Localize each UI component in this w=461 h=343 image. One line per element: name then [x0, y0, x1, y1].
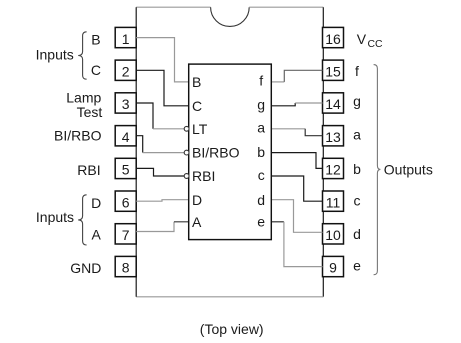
wire pin1 to B	[136, 38, 189, 82]
inversion bubble RBI	[184, 174, 189, 179]
pin 2 box	[115, 60, 136, 80]
svg-text:6: 6	[122, 194, 130, 210]
brace for Inputs D,A	[78, 195, 86, 245]
svg-text:c: c	[258, 167, 265, 183]
wire b to pin12	[271, 153, 322, 169]
pin 9 box	[323, 256, 344, 276]
svg-text:d: d	[257, 192, 265, 208]
svg-text:Inputs: Inputs	[36, 209, 74, 225]
svg-text:RBI: RBI	[77, 162, 100, 178]
wire a to pin13	[271, 129, 322, 136]
svg-text:B: B	[91, 32, 100, 48]
svg-text:D: D	[192, 192, 202, 208]
pin 5 box	[115, 158, 136, 178]
svg-text:CC: CC	[368, 39, 384, 50]
pin 10 box	[323, 224, 344, 244]
svg-text:Inputs: Inputs	[36, 47, 74, 63]
pin 4 box	[115, 126, 136, 146]
label VCC	[357, 31, 383, 50]
wire f to pin15	[271, 70, 322, 82]
svg-text:e: e	[353, 257, 361, 273]
svg-text:7: 7	[122, 227, 130, 243]
pin 1 box	[115, 27, 136, 47]
svg-text:b: b	[353, 161, 361, 177]
svg-text:BI/RBO: BI/RBO	[54, 127, 102, 143]
svg-text:(Top view): (Top view)	[200, 321, 264, 337]
wire pin3 to LT	[136, 103, 184, 129]
svg-text:C: C	[192, 98, 202, 114]
svg-text:5: 5	[122, 162, 130, 178]
svg-text:c: c	[354, 192, 361, 208]
svg-text:b: b	[257, 144, 265, 160]
pin 15 box	[323, 60, 344, 80]
IC body rectangle	[189, 64, 272, 240]
wire pin5 to RBI	[136, 168, 184, 176]
pin 6 box	[115, 191, 136, 211]
wire pin6 to D	[136, 200, 189, 202]
svg-text:BI/RBO: BI/RBO	[192, 145, 240, 161]
svg-text:Outputs: Outputs	[384, 161, 433, 177]
svg-text:15: 15	[325, 64, 341, 80]
pin 12 box	[323, 158, 344, 178]
pin 14 box	[323, 93, 344, 113]
svg-text:A: A	[192, 214, 202, 230]
svg-text:D: D	[91, 195, 101, 211]
wire pin7 to A	[136, 222, 189, 232]
svg-text:C: C	[91, 62, 101, 78]
brace for Outputs	[374, 65, 381, 275]
wire pin2 to C	[136, 70, 189, 106]
svg-text:9: 9	[329, 260, 337, 276]
svg-text:Test: Test	[77, 104, 103, 120]
wire d to pin10	[271, 200, 322, 233]
wire g to pin14	[271, 103, 322, 106]
wire e to pin9	[271, 222, 322, 267]
svg-text:4: 4	[122, 129, 130, 145]
pin 16 box	[323, 27, 344, 47]
svg-text:f: f	[259, 73, 263, 89]
svg-text:16: 16	[325, 31, 341, 47]
IC package outline (16-pin DIP, top view)	[136, 7, 323, 297]
svg-text:11: 11	[326, 194, 341, 210]
svg-text:1: 1	[122, 31, 130, 47]
svg-text:V: V	[357, 31, 367, 47]
svg-text:8: 8	[122, 260, 130, 276]
svg-text:LT: LT	[192, 121, 208, 137]
brace for Inputs B,C	[78, 32, 86, 79]
pin 7 box	[115, 224, 136, 244]
svg-text:f: f	[355, 63, 359, 79]
svg-text:B: B	[192, 74, 201, 90]
svg-text:d: d	[353, 226, 361, 242]
svg-text:12: 12	[325, 162, 341, 178]
pin 13 box	[323, 126, 344, 146]
svg-text:a: a	[257, 120, 265, 136]
svg-text:10: 10	[325, 227, 341, 243]
pin 11 box	[323, 191, 344, 211]
svg-text:g: g	[257, 96, 265, 112]
svg-text:e: e	[257, 214, 265, 230]
inversion bubble LT	[184, 126, 189, 131]
svg-text:GND: GND	[70, 260, 101, 276]
svg-text:A: A	[92, 227, 102, 243]
pin 8 box	[115, 256, 136, 276]
svg-text:g: g	[353, 93, 361, 109]
wire c to pin11	[271, 176, 322, 201]
svg-text:13: 13	[325, 129, 341, 145]
svg-text:3: 3	[122, 96, 130, 112]
svg-text:RBI: RBI	[192, 168, 215, 184]
pin 3 box	[115, 93, 136, 113]
svg-text:a: a	[353, 127, 361, 143]
svg-text:2: 2	[122, 64, 130, 80]
wire pin4 to BI/RBO	[136, 136, 184, 153]
inversion bubble BI/RBO	[184, 150, 189, 155]
svg-text:14: 14	[325, 96, 341, 112]
